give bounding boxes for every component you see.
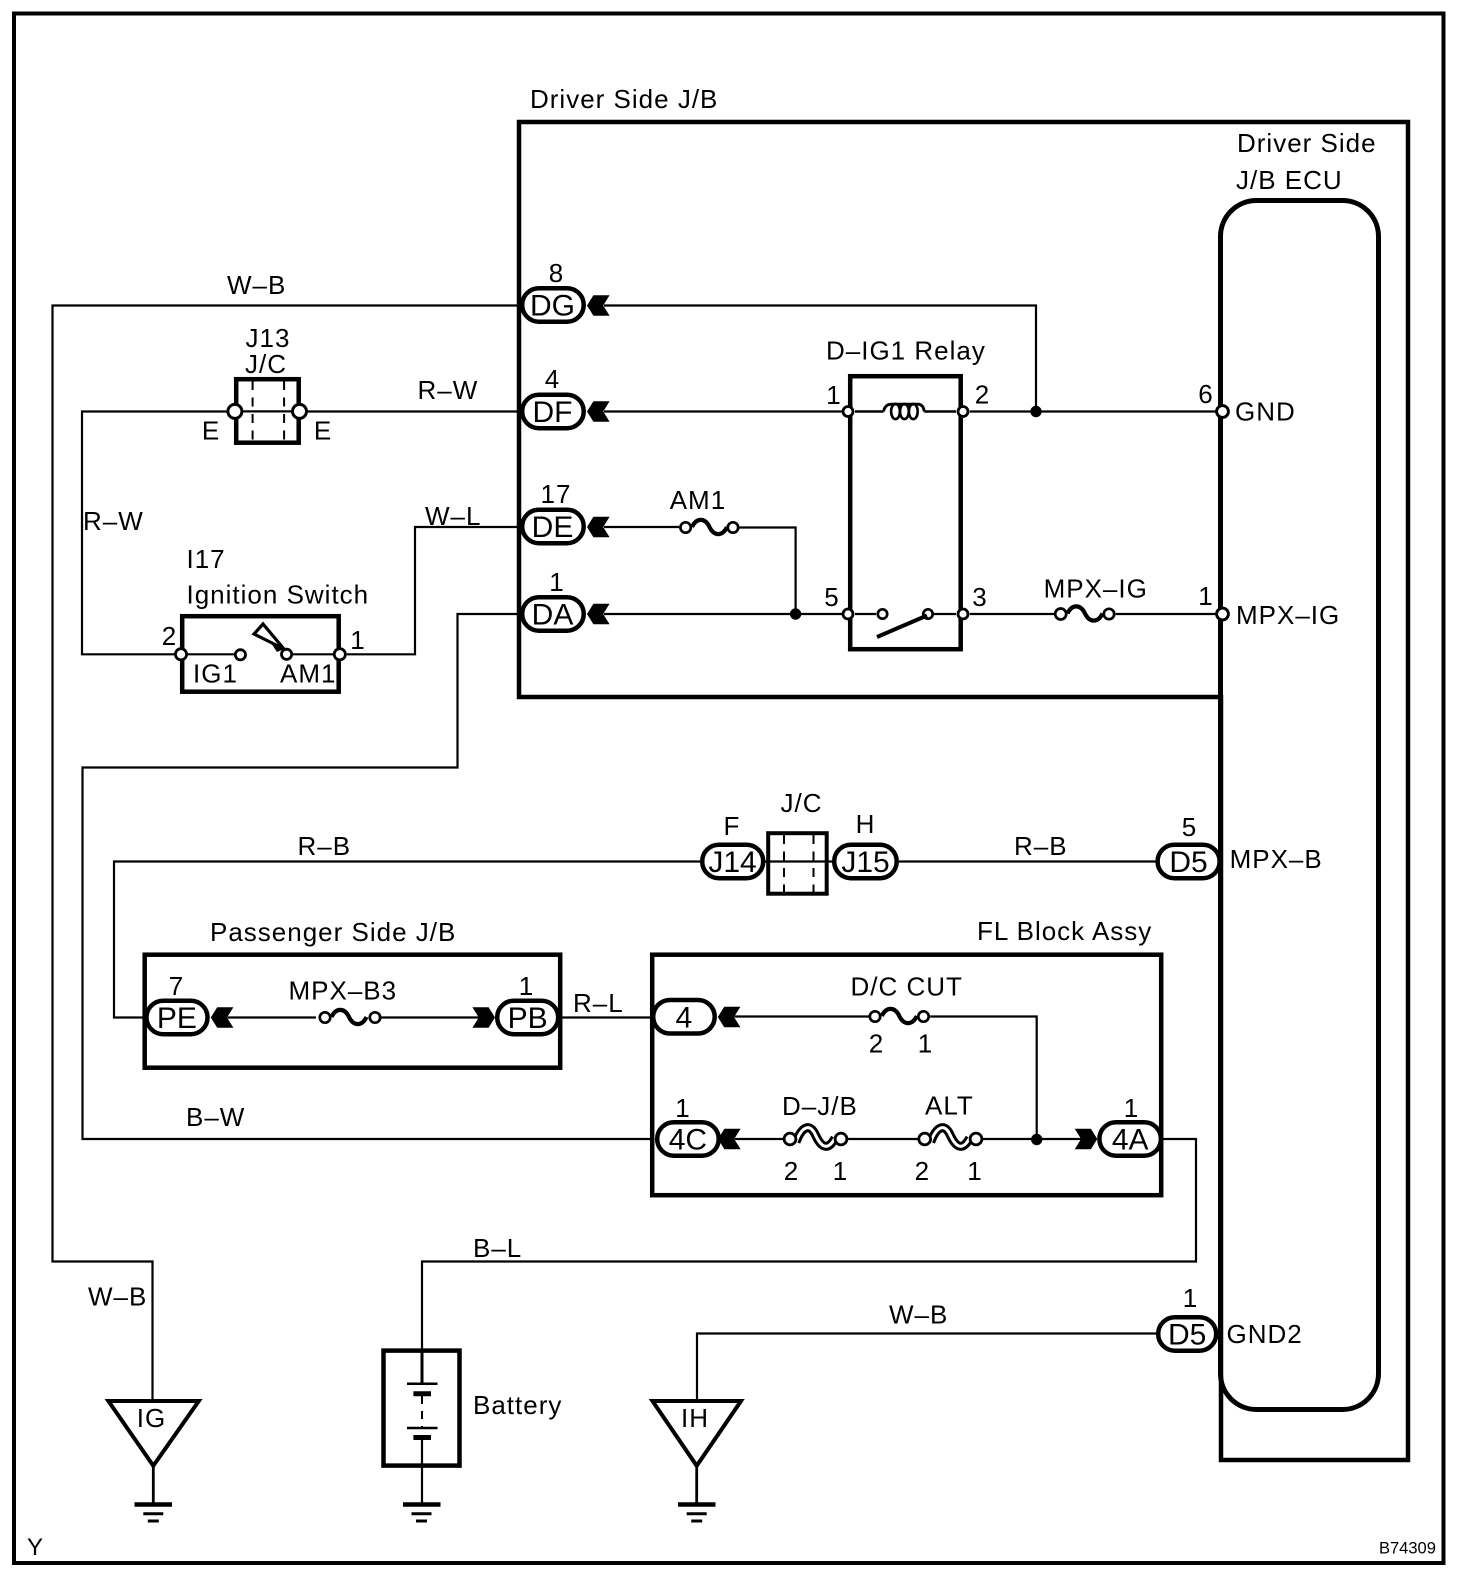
connector DA (pin 1) [522,567,584,632]
svg-text:AM1: AM1 [280,659,336,689]
connector D5 (pin 1 GND2) [1158,1283,1216,1352]
wire DE arrow to fuse AM1 [604,526,679,528]
svg-text:5: 5 [824,582,839,612]
Driver Side J/B box [519,122,1408,1460]
connector J15 (pin H) [834,809,897,879]
svg-text:DG: DG [530,290,575,323]
junction connector J13 J/C [202,323,332,446]
ground (battery) [403,1505,441,1522]
ground IG triangle [108,1401,198,1521]
wire R-B left: J14 to PE [114,862,700,1018]
svg-text:J15: J15 [841,846,889,879]
wire DA path to B-W row (to 4C) [83,614,654,1139]
svg-text:MPX–IG: MPX–IG [1236,600,1340,630]
svg-text:1: 1 [1183,1283,1198,1313]
svg-text:8: 8 [549,258,564,288]
junction dot on ALT row [1031,1134,1042,1145]
wire 4C arrow to fusible link D-J/B [735,1138,784,1140]
connector DF (pin 4) [522,364,584,429]
svg-text:DE: DE [532,511,574,544]
ignition switch I17 [162,544,369,692]
pin 1 [334,649,345,660]
svg-text:4: 4 [545,364,560,394]
svg-text:1: 1 [826,380,841,410]
svg-text:D5: D5 [1168,1319,1206,1352]
wire DA to relay pin 5 [604,613,842,615]
svg-text:PE: PE [157,1002,197,1035]
svg-text:AM1: AM1 [670,485,726,515]
svg-text:1: 1 [1198,581,1213,611]
svg-text:1: 1 [350,625,365,655]
arrow into DF [587,401,610,421]
arrow into DG [587,295,610,315]
svg-text:IG1: IG1 [193,659,238,689]
arrow into 4 [718,1007,741,1027]
svg-text:W–B: W–B [227,270,286,300]
svg-text:IG: IG [137,1403,166,1433]
ground IH triangle [653,1401,742,1521]
svg-text:2: 2 [915,1156,930,1186]
FL Block Assy box [652,955,1161,1195]
svg-text:R–W: R–W [83,506,144,536]
ECU pin 1 MPX-IG [1217,608,1229,620]
svg-text:R–L: R–L [573,988,624,1018]
wire W-B: DG to left and down to IG ground [53,306,521,1402]
svg-text:F: F [724,811,741,841]
pin 5 [843,609,853,619]
svg-text:Passenger Side J/B: Passenger Side J/B [210,917,456,947]
svg-text:J/C: J/C [245,349,287,379]
svg-text:R–W: R–W [418,375,479,405]
svg-text:DA: DA [532,599,574,632]
wire AM1 to pin1 [293,653,333,655]
wire ALT to 4A arrow [983,1138,1081,1140]
svg-text:D–J/B: D–J/B [782,1091,858,1121]
svg-text:5: 5 [1182,812,1197,842]
svg-text:Driver Side: Driver Side [1237,128,1377,158]
svg-text:Battery: Battery [473,1390,562,1420]
svg-text:Ignition Switch: Ignition Switch [187,580,370,610]
svg-text:D/C CUT: D/C CUT [851,972,963,1002]
svg-text:B–W: B–W [186,1102,245,1132]
wire relay pin2 to ECU GND pin [970,410,1216,412]
svg-text:DF: DF [533,396,573,429]
svg-text:W–B: W–B [88,1282,147,1312]
wire relay pin3 to fuse MPX-IG [970,613,1054,615]
Passenger Side J/B box [145,955,561,1068]
wire W-B: IH to D5 GND2 [697,1334,1158,1402]
connector 4A (pin 1) [1099,1093,1161,1157]
fuse MPX-IG [1044,574,1148,621]
svg-text:1: 1 [1124,1093,1139,1123]
fuse D/C CUT [851,972,963,1059]
svg-text:GND2: GND2 [1227,1319,1303,1349]
connector 4 [653,1000,715,1035]
wire fuse MPX-B3 to PB arrow [379,1016,479,1018]
svg-text:D–IG1 Relay: D–IG1 Relay [826,336,986,366]
wire W-L: ignition pin1 to DE [347,527,522,654]
svg-text:6: 6 [1198,379,1213,409]
pin 2 [175,649,186,660]
wire AM1 fuse to DA-row junction [740,528,796,615]
arrow into PE [211,1007,234,1027]
wire R-B right: J15 to D5 [899,860,1157,862]
battery [384,1351,563,1504]
svg-text:7: 7 [169,971,184,1001]
svg-text:IH: IH [681,1403,709,1433]
svg-text:4: 4 [676,1002,693,1035]
ECU pin 6 GND [1217,406,1229,418]
connector DE (pin 17) [522,479,584,544]
svg-text:4C: 4C [669,1124,707,1157]
svg-text:I17: I17 [187,544,226,574]
wire DF to relay pin 1 [604,410,843,412]
wire fuse MPX-IG to ECU pin 1 [1116,613,1216,615]
svg-text:MPX–IG: MPX–IG [1044,574,1148,604]
connector J14 (pin F) [702,811,763,879]
arrow into DA [587,604,610,624]
wire pin2 to IG1 [188,653,234,655]
wire R-W: DF to J13 to ignition switch pin 2 [307,410,522,412]
svg-text:MPX–B: MPX–B [1230,844,1323,874]
wire R-L: PB to FL block connector 4 [561,1016,654,1018]
svg-text:R–B: R–B [1014,831,1068,861]
wire B-L: 4A to battery [422,1139,1196,1350]
svg-text:1: 1 [918,1029,933,1059]
svg-text:2: 2 [975,380,990,410]
svg-text:J14: J14 [708,846,756,879]
ECU U1 Driver Side J/B ECU [1221,201,1379,1410]
svg-text:ALT: ALT [925,1091,974,1121]
pin 1 [843,407,853,417]
svg-text:H: H [856,809,876,839]
svg-text:3: 3 [972,582,987,612]
svg-text:B74309: B74309 [1379,1540,1436,1558]
connector D5 (pin 5 MPX-B) [1158,812,1220,879]
svg-text:Driver Side J/B: Driver Side J/B [530,84,718,114]
svg-text:GND: GND [1235,397,1296,427]
svg-text:17: 17 [541,479,572,509]
connector PB (pin 1) [497,971,558,1035]
svg-text:MPX–B3: MPX–B3 [289,976,398,1006]
relay coil [855,410,884,413]
svg-text:1: 1 [549,567,564,597]
wire D-J/B to ALT [848,1138,918,1140]
svg-text:1: 1 [675,1093,690,1123]
svg-text:2: 2 [784,1156,799,1186]
svg-text:PB: PB [508,1002,548,1035]
svg-text:2: 2 [162,621,177,651]
svg-text:4A: 4A [1112,1124,1149,1157]
junction connector J/C (J14-J15) [763,788,834,894]
connector 4C (pin 1) [657,1093,719,1157]
pin 3 [958,609,968,619]
wire PE arrow to fuse MPX-B3 [228,1016,317,1018]
arrow into DE [587,517,610,537]
pin 2 [958,407,968,417]
switch lever [254,624,284,649]
svg-text:1: 1 [519,971,534,1001]
arrow into 4A [1075,1129,1098,1149]
svg-text:R–B: R–B [298,831,352,861]
svg-text:E: E [314,416,332,446]
svg-text:FL Block Assy: FL Block Assy [977,916,1152,946]
svg-text:D5: D5 [1169,846,1207,879]
fuse AM1 [670,485,739,534]
svg-text:W–L: W–L [425,501,481,531]
wire arrow4 to fuse D/C CUT [735,1015,870,1017]
arrow into 4C [718,1129,741,1149]
junction dot on DA wire [790,608,801,619]
svg-text:J/C: J/C [781,788,823,818]
arrow into PB [472,1007,495,1027]
wire D/C CUT to ALT-row junction [930,1017,1036,1141]
relay switch blade [877,616,927,638]
fuse MPX-B3 [289,976,398,1025]
svg-text:W–B: W–B [889,1300,948,1330]
svg-text:1: 1 [833,1156,848,1186]
svg-text:1: 1 [967,1156,982,1186]
connector PE (pin 7) [147,971,208,1035]
contact IG1 [235,650,245,660]
fusible link D-J/B [782,1091,858,1186]
svg-text:Y: Y [27,1534,43,1561]
connector DG (Driver Side J/B pin 8) [522,258,584,323]
svg-text:J/B ECU: J/B ECU [1236,165,1343,195]
wire DG to GND junction [604,306,1036,412]
junction dot (DG wire joins GND wire) [1030,406,1041,417]
relay D-IG1 [824,336,990,650]
svg-text:2: 2 [869,1029,884,1059]
contact AM1 [282,649,292,659]
relay switch contacts [855,613,876,615]
svg-text:E: E [202,416,220,446]
svg-text:B–L: B–L [473,1233,522,1263]
fusible link ALT [915,1091,983,1187]
